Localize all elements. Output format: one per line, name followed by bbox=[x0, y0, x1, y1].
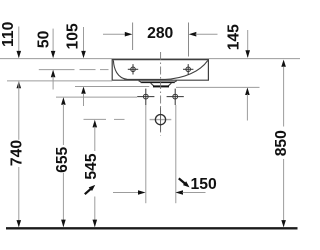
dimension 850 up arrowhead bbox=[281, 60, 286, 67]
dimension 280 right arrowhead bbox=[189, 32, 197, 37]
extension line drain bottom right bbox=[176, 86, 260, 88]
extension line supply hole level bbox=[84, 118, 107, 120]
dimension 150 left extension line bbox=[145, 105, 147, 203]
svg-text:280: 280 bbox=[147, 25, 173, 42]
dimension 145 up arrow tail bbox=[246, 94, 248, 120]
svg-text:740: 740 bbox=[9, 140, 26, 166]
supply hole circle bbox=[155, 115, 165, 125]
drain trapezoid left side bbox=[151, 83, 154, 86]
svg-text:150: 150 bbox=[191, 176, 217, 193]
dimension 105 up arrow tail bbox=[83, 93, 85, 106]
dimension 145 leader line bbox=[247, 30, 249, 57]
left fixing hole in basin bbox=[128, 64, 138, 74]
drain flange right slant bbox=[174, 81, 177, 83]
center line (dash-dot) bbox=[160, 52, 162, 136]
dimension 545 slope arrow glyph bbox=[83, 183, 97, 196]
dimension 50 up arrow tail bbox=[52, 77, 54, 90]
dimension 280 right extension line bbox=[188, 23, 190, 57]
dimension 740 line upper part bbox=[18, 82, 20, 140]
svg-text:545: 545 bbox=[83, 153, 100, 179]
svg-text:105: 105 bbox=[65, 23, 82, 49]
dimension 280 left arrowhead bbox=[125, 32, 133, 37]
dimension 150 right arrow tail bbox=[183, 192, 206, 194]
dimension 110 leader line bbox=[18, 27, 20, 58]
dimension 850 line lower part bbox=[283, 159, 285, 227]
dimension 280 right arrow tail bbox=[196, 33, 218, 35]
dimension 655 line upper part bbox=[62, 104, 64, 145]
dimension 280 left extension line bbox=[132, 23, 134, 51]
supply hole crosshair horizontal bbox=[150, 119, 172, 121]
dimension 655 line lower part bbox=[62, 173, 64, 227]
dimension 655 floor arrowhead bbox=[61, 220, 66, 228]
dimension 850 line upper part bbox=[283, 67, 285, 127]
dimension 150 slope arrow glyph bbox=[177, 176, 191, 189]
dimension 105 down arrowhead bbox=[81, 51, 86, 58]
dimension 545 line lower part bbox=[94, 197, 96, 227]
dimension 50 down arrowhead bbox=[51, 51, 56, 58]
dimension 740 line lower part bbox=[18, 167, 20, 227]
drain flange left slant bbox=[139, 81, 142, 83]
svg-text:145: 145 bbox=[226, 24, 243, 50]
dimension 850 floor arrowhead bbox=[281, 220, 286, 227]
supply hole crosshair vertical bbox=[160, 108, 162, 132]
dimension 145 down arrowhead bbox=[245, 50, 250, 58]
extension line drain bottom left bbox=[75, 86, 149, 88]
drain bottom thick edge bbox=[153, 85, 169, 87]
dimension 545 line upper part bbox=[94, 127, 96, 151]
dimension 105 leader line bbox=[83, 27, 85, 57]
wall / rim level line bbox=[0, 58, 300, 60]
svg-text:50: 50 bbox=[35, 30, 52, 48]
dimension 740 floor arrowhead bbox=[17, 220, 22, 227]
dimension 150 left arrow tail bbox=[113, 192, 139, 194]
right fixing hole in basin bbox=[183, 64, 193, 74]
dimension 545 floor arrowhead bbox=[93, 220, 98, 228]
dimension 655 up arrowhead bbox=[61, 97, 66, 105]
dimension 110 up arrowhead bbox=[17, 81, 22, 88]
drain trapezoid right side bbox=[168, 83, 171, 86]
dimension 150 left arrowhead bbox=[138, 190, 146, 195]
dimension 280 left arrow tail bbox=[103, 33, 126, 35]
dimension 50 leader line bbox=[52, 29, 54, 58]
dimension 150 right arrowhead bbox=[175, 190, 183, 195]
basin inner bowl curve bbox=[113, 60, 207, 79]
extension line lower holes level bbox=[56, 96, 137, 98]
dimension 110 down arrowhead bbox=[17, 51, 22, 58]
extension line at basin bottom level bbox=[7, 80, 112, 82]
lower left fixing hole bbox=[137, 89, 154, 105]
extension line 50 below rim (dashed) bbox=[39, 69, 109, 71]
drain flange top bar bbox=[141, 81, 175, 83]
floor line bbox=[6, 227, 298, 229]
dimension 545 up arrowhead bbox=[93, 120, 98, 128]
lower right fixing hole bbox=[167, 89, 184, 105]
dimension 105 up arrowhead bbox=[81, 87, 86, 94]
dimension 50 up arrowhead bbox=[51, 70, 56, 78]
dimension 145 up arrowhead bbox=[245, 87, 250, 95]
basin outline bbox=[112, 60, 208, 81]
svg-text:110: 110 bbox=[0, 21, 17, 47]
dimension 150 right extension line bbox=[175, 105, 177, 203]
svg-text:655: 655 bbox=[54, 146, 71, 172]
svg-text:850: 850 bbox=[273, 130, 290, 156]
